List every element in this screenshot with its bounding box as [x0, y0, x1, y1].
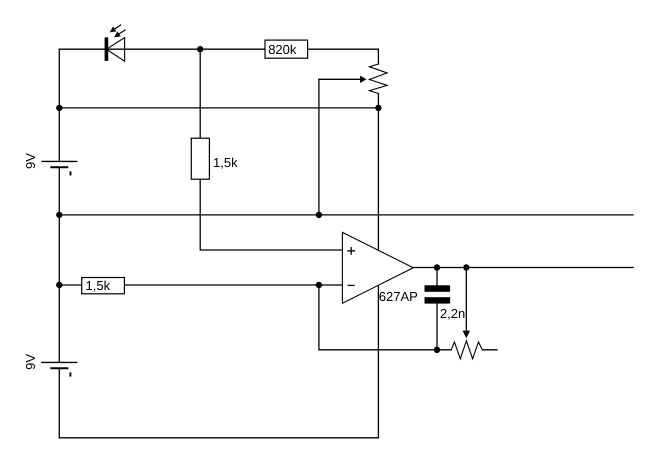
capacitor C1 top plate — [425, 285, 451, 292]
node left rail2 — [56, 105, 62, 111]
svg-text:2,2n: 2,2n — [440, 306, 465, 321]
svg-text:1,5k: 1,5k — [86, 278, 111, 293]
wire R2 branch from top rail down to R2 — [199, 49, 201, 138]
node top rail / R2 branch — [197, 46, 203, 52]
op-amp U1 plus input mark — [347, 247, 355, 255]
wire top rail from left corner to potentiometer top — [59, 49, 378, 64]
op-amp U1 triangle body — [342, 232, 413, 303]
wire left vertical lower (battery B2 minus to bottom rail) — [58, 368, 60, 438]
wire pot wiper horizontal — [319, 78, 360, 80]
wire pot wiper down to rail3 — [318, 79, 320, 215]
battery B1 negative plate — [50, 166, 68, 168]
svg-text:1,5k: 1,5k — [213, 155, 238, 170]
node pot bottom / rail2 — [375, 105, 381, 111]
trimmer R4 zigzag — [451, 341, 482, 359]
svg-text:9V: 9V — [23, 354, 38, 370]
wire R4 right lead — [482, 349, 497, 351]
battery B1 minus tick — [70, 171, 72, 175]
potentiometer P1 zigzag — [369, 64, 387, 94]
photodiode D1 triangle — [106, 38, 124, 62]
wire inverting input rail through R1 — [59, 284, 342, 286]
node inverting input / feedback — [316, 282, 322, 288]
node capacitor bottom / feedback — [434, 347, 440, 353]
wire left vertical upper (to battery B1 plus plate) — [58, 49, 60, 161]
op-amp U1 minus input mark — [348, 284, 355, 286]
wire op-amp output to right edge — [413, 267, 633, 269]
battery B2 negative plate — [50, 367, 68, 369]
resistor R2 1,5k vertical box — [191, 138, 209, 179]
photodiode D1 light arrow 1 — [110, 25, 122, 33]
svg-text:627AP: 627AP — [379, 289, 418, 304]
svg-text:9V: 9V — [23, 153, 38, 169]
node wiper / rail3 — [316, 212, 322, 218]
wire potentiometer bottom down to bottom rail — [377, 94, 379, 438]
photodiode D1 light arrow 2 — [114, 30, 126, 38]
battery B2 positive plate — [41, 361, 77, 363]
photodiode D1 cathode bar — [105, 37, 109, 61]
wire feedback from inverting input down and right to R4 — [319, 285, 451, 350]
battery B1 positive plate — [41, 160, 77, 162]
trimmer R4 wiper arrowhead — [463, 331, 470, 339]
node left inverting rail — [56, 282, 62, 288]
wire capacitor bottom lead — [436, 304, 438, 350]
node left rail3 — [56, 212, 62, 218]
wire rail2 (battery plus rail to pot bottom) — [59, 107, 378, 109]
resistor R3 820k box — [265, 40, 308, 58]
potentiometer P1 wiper arrowhead — [360, 76, 367, 83]
wire left vertical middle (battery B1 minus to battery B2 plus) — [58, 167, 60, 362]
wire output down-arrow to R4 wiper — [465, 268, 467, 332]
resistor R1 1,5k horizontal box — [82, 278, 125, 294]
battery B2 minus tick — [69, 372, 71, 376]
capacitor C1 bottom plate — [425, 297, 451, 303]
node output / wiper arrow — [463, 264, 469, 270]
wire capacitor top lead — [436, 268, 438, 286]
wire R2 bottom to op-amp non-inverting input — [200, 179, 342, 250]
wire bottom rail — [59, 437, 378, 439]
svg-text:820k: 820k — [268, 42, 297, 57]
wire rail3 (mid rail to right edge) — [59, 214, 633, 216]
node output / capacitor — [434, 264, 440, 270]
